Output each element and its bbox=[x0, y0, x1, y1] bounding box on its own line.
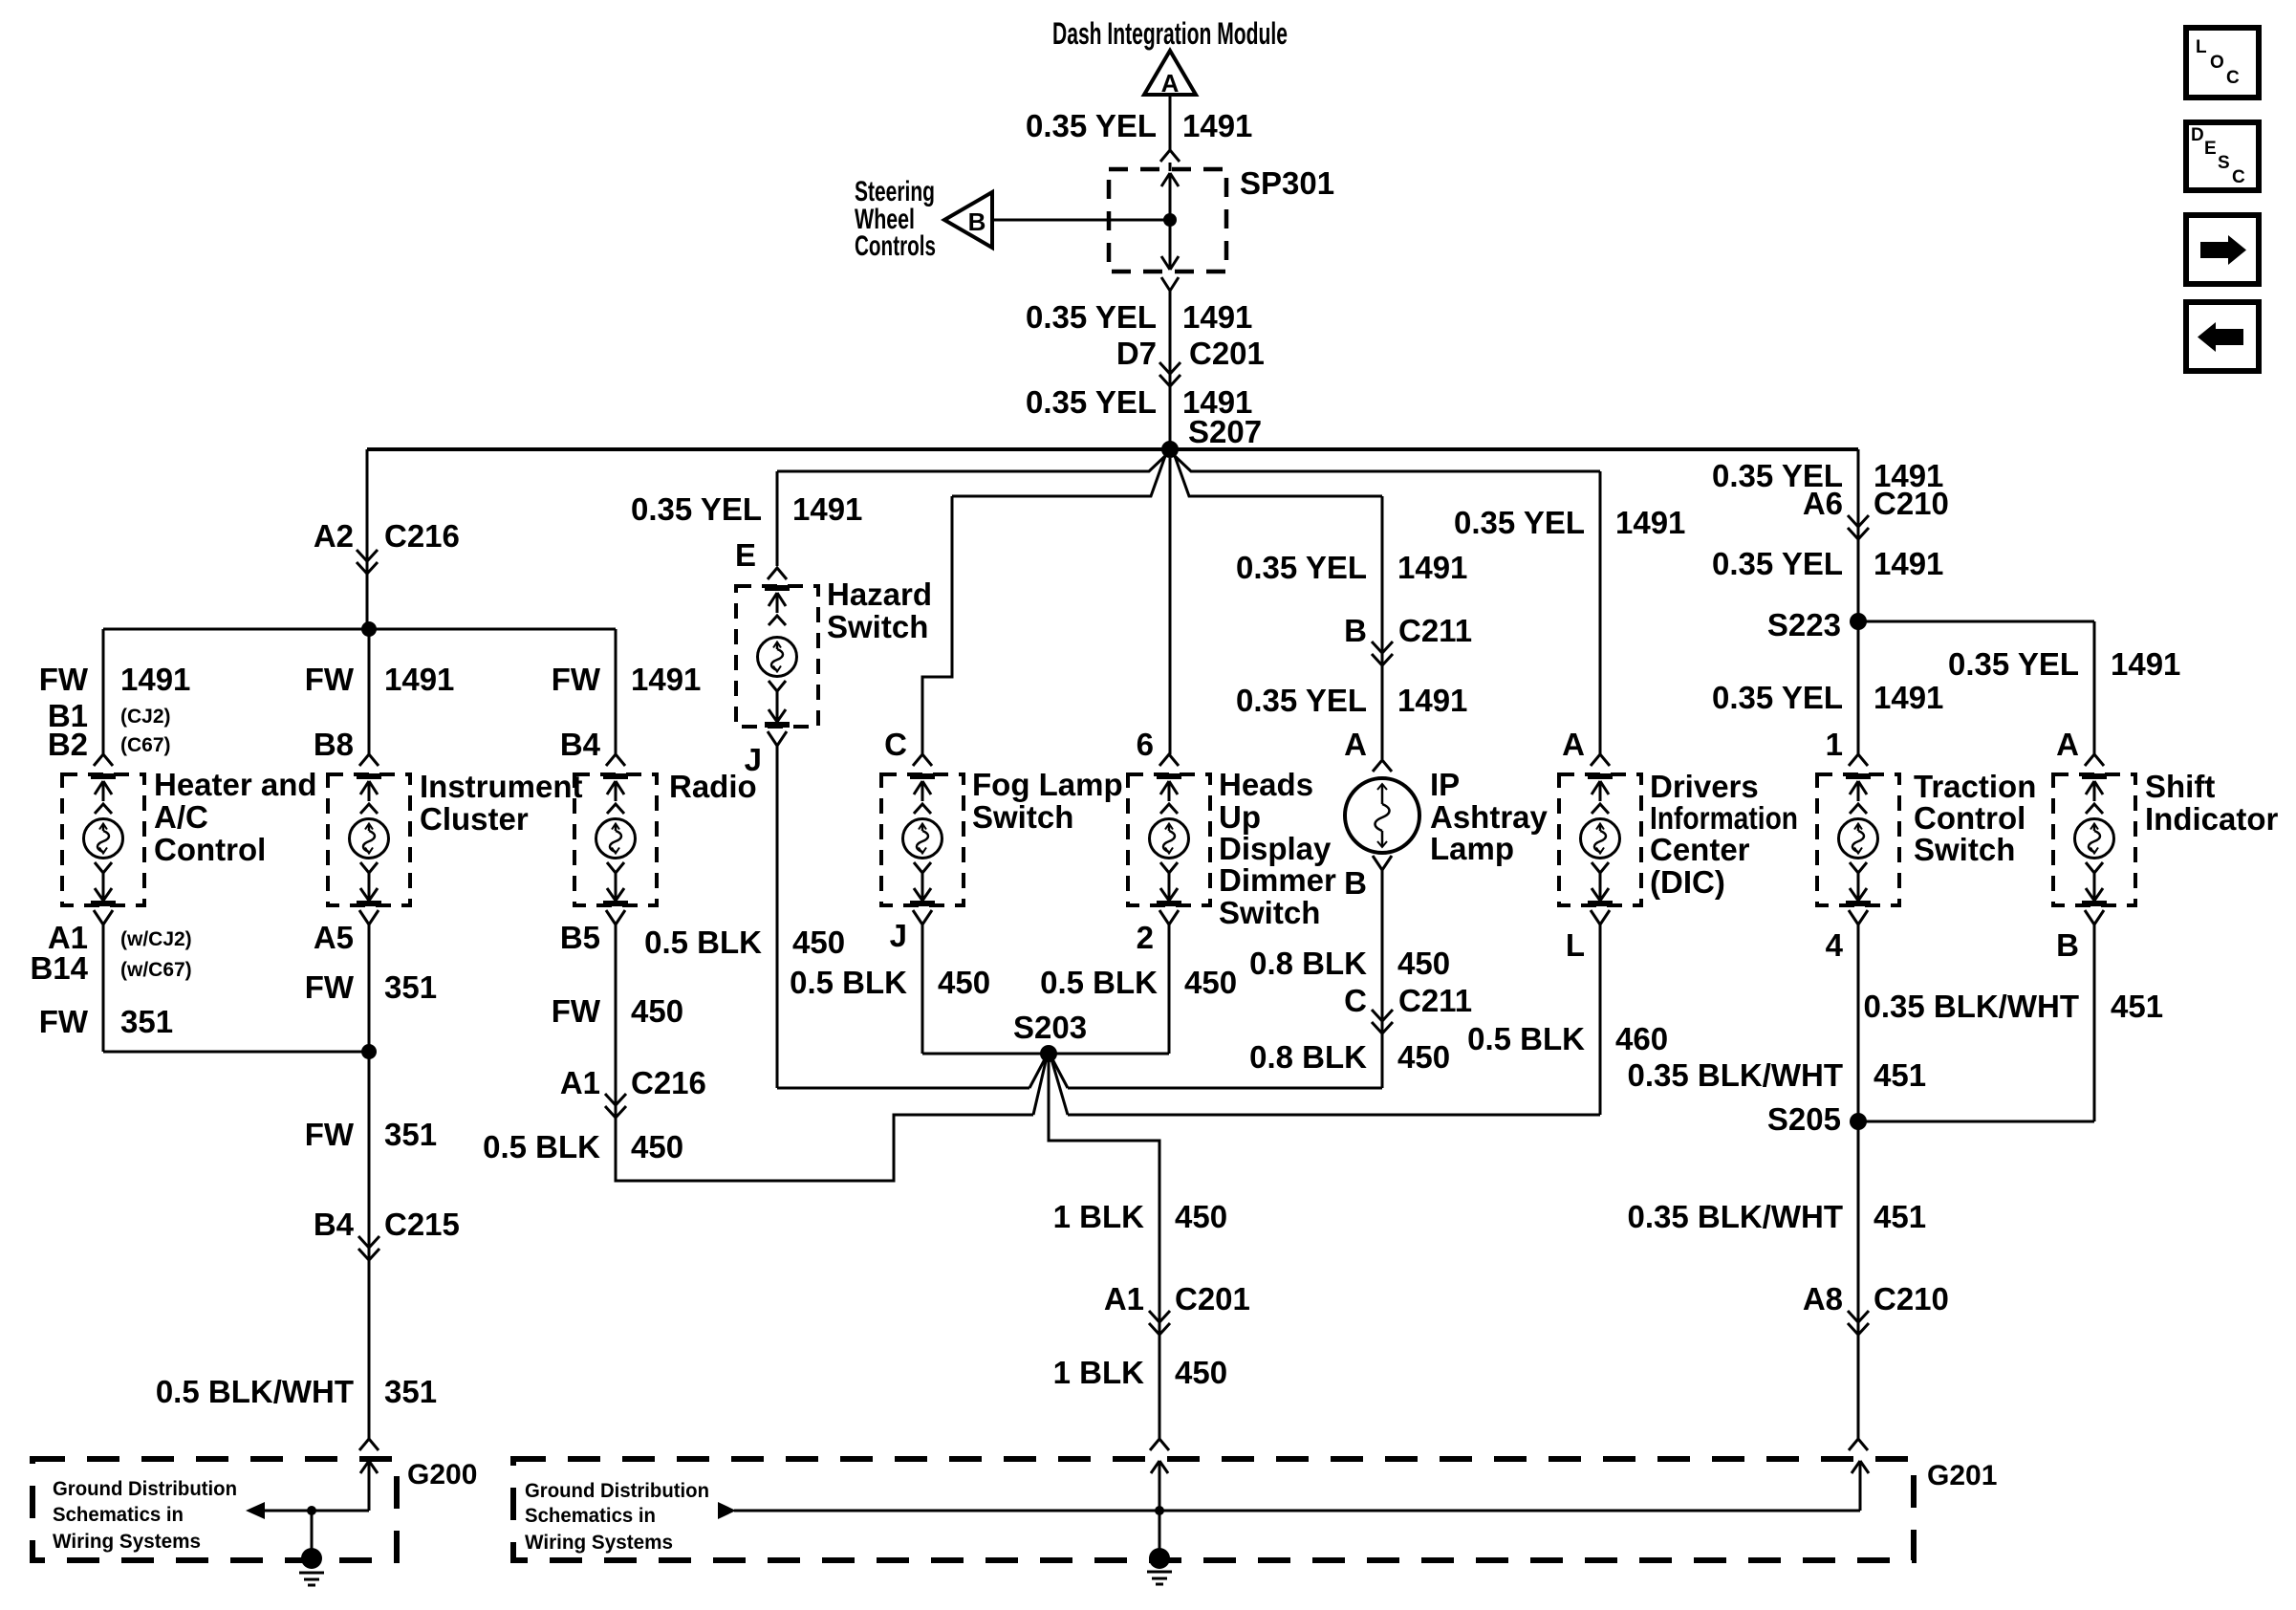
svg-text:C: C bbox=[884, 727, 907, 762]
connector chevron below heater box bbox=[94, 910, 113, 925]
svg-text:Drivers: Drivers bbox=[1650, 769, 1759, 804]
ground G201 bbox=[1149, 1548, 1170, 1569]
svg-text:C216: C216 bbox=[384, 518, 460, 554]
svg-text:A1: A1 bbox=[1104, 1281, 1144, 1316]
connector chevron above DIC box bbox=[1591, 754, 1610, 766]
svg-text:Instrument: Instrument bbox=[420, 769, 583, 804]
svg-text:FW: FW bbox=[552, 662, 601, 697]
svg-text:C215: C215 bbox=[384, 1207, 460, 1242]
svg-text:1491: 1491 bbox=[1397, 550, 1467, 585]
wire S207 branch to Fog Lamp Switch bbox=[952, 456, 1165, 496]
svg-text:Heater and: Heater and bbox=[154, 767, 317, 802]
svg-text:S: S bbox=[2218, 153, 2230, 173]
svg-text:B2: B2 bbox=[48, 727, 88, 762]
svg-text:351: 351 bbox=[384, 969, 437, 1005]
wire junction bus to Heater and Radio drops bbox=[103, 628, 616, 631]
wire inside G200 to left arrow bbox=[265, 1510, 369, 1512]
svg-text:1491: 1491 bbox=[1397, 683, 1467, 718]
svg-text:C211: C211 bbox=[1398, 613, 1472, 648]
wire drop to Heater and A/C Control bbox=[102, 629, 105, 754]
svg-text:C: C bbox=[1344, 983, 1367, 1018]
svg-text:0.35 YEL: 0.35 YEL bbox=[1454, 505, 1585, 540]
svg-text:A: A bbox=[1562, 727, 1585, 762]
connector chevron above hazard box bbox=[768, 568, 787, 579]
svg-text:B8: B8 bbox=[314, 727, 354, 762]
icon button DESC bbox=[2186, 122, 2259, 190]
connector C216 double chevron (radio) bbox=[605, 1094, 626, 1105]
svg-text:A: A bbox=[2056, 727, 2079, 762]
connector chevron below fog lamp box bbox=[913, 910, 932, 925]
connector chevron above SP301 bbox=[1160, 150, 1180, 162]
svg-text:E: E bbox=[735, 537, 756, 573]
icon button right arrow bbox=[2186, 215, 2259, 284]
svg-text:0.35 YEL: 0.35 YEL bbox=[631, 491, 762, 527]
svg-text:Traction: Traction bbox=[1914, 769, 2036, 804]
svg-text:1491: 1491 bbox=[1182, 299, 1252, 335]
svg-text:450: 450 bbox=[631, 993, 683, 1029]
main wire bus from S207 left to C216 drop and right to traction drop bbox=[367, 447, 1858, 451]
connector chevron below SP301 bbox=[1161, 277, 1179, 291]
svg-text:450: 450 bbox=[1397, 1039, 1450, 1075]
connector C201 double chevron (A1) bbox=[1149, 1311, 1170, 1322]
wire bus down to traction control bbox=[1857, 449, 1860, 754]
svg-text:C201: C201 bbox=[1189, 336, 1265, 371]
svg-text:A1: A1 bbox=[560, 1065, 600, 1100]
svg-text:Switch: Switch bbox=[1914, 832, 2015, 867]
svg-text:1491: 1491 bbox=[384, 662, 454, 697]
svg-text:Switch: Switch bbox=[1219, 895, 1320, 930]
svg-text:C: C bbox=[2226, 68, 2240, 88]
arrow up inside SP301 bbox=[1169, 172, 1172, 175]
svg-text:Hazard: Hazard bbox=[827, 577, 932, 612]
svg-text:O: O bbox=[2210, 53, 2224, 73]
svg-text:Fog Lamp: Fog Lamp bbox=[972, 767, 1123, 802]
lamp Fog Lamp Switch bbox=[881, 774, 964, 905]
svg-text:Control: Control bbox=[154, 832, 266, 867]
connector chevron below DIC box bbox=[1591, 910, 1610, 925]
node junction on ground wire 351 bbox=[361, 1044, 377, 1059]
svg-text:0.5 BLK: 0.5 BLK bbox=[483, 1129, 600, 1164]
svg-text:(DIC): (DIC) bbox=[1650, 864, 1725, 900]
svg-text:D7: D7 bbox=[1116, 336, 1157, 371]
wire from bus down to C216 connector bbox=[366, 449, 369, 629]
lamp Traction Control Switch bbox=[1817, 774, 1899, 905]
arrow up inside G201 (right riser) bbox=[1852, 1461, 1860, 1473]
svg-text:S207: S207 bbox=[1188, 414, 1262, 449]
svg-text:(w/C67): (w/C67) bbox=[120, 959, 192, 981]
connector chevron above G201 (left) bbox=[1150, 1439, 1169, 1450]
svg-text:0.5 BLK/WHT: 0.5 BLK/WHT bbox=[156, 1374, 354, 1409]
connector C210 double chevron (A6) bbox=[1848, 515, 1869, 527]
wire into SP301 bbox=[1169, 163, 1172, 171]
wire S207 branch to DIC bbox=[1173, 454, 1600, 471]
svg-text:FW: FW bbox=[552, 993, 601, 1029]
svg-text:Indicator: Indicator bbox=[2145, 801, 2279, 837]
connector C201 double chevron bbox=[1159, 362, 1180, 374]
svg-text:Ashtray: Ashtray bbox=[1430, 799, 1549, 835]
svg-text:Controls: Controls bbox=[855, 230, 936, 262]
lamp Heater and A/C Control bbox=[62, 774, 144, 905]
svg-text:C211: C211 bbox=[1398, 983, 1472, 1018]
svg-text:1: 1 bbox=[1826, 727, 1843, 762]
svg-text:C210: C210 bbox=[1874, 486, 1949, 521]
svg-text:450: 450 bbox=[1397, 946, 1450, 981]
wire 1491 from triangle A to SP301 bbox=[1169, 95, 1172, 151]
svg-text:FW: FW bbox=[305, 662, 355, 697]
svg-text:450: 450 bbox=[792, 925, 845, 960]
wire instrument cluster down to G200 bbox=[368, 925, 371, 1439]
svg-text:(w/CJ2): (w/CJ2) bbox=[120, 928, 192, 950]
svg-text:451: 451 bbox=[2111, 989, 2163, 1024]
svg-text:A8: A8 bbox=[1803, 1281, 1843, 1316]
svg-text:FW: FW bbox=[39, 662, 89, 697]
svg-text:B: B bbox=[1344, 865, 1367, 901]
connector chevron above G200 bbox=[359, 1439, 379, 1450]
node junction inside G200 bbox=[307, 1506, 316, 1515]
connector chevron above heater box bbox=[94, 754, 113, 766]
svg-text:G200: G200 bbox=[407, 1459, 477, 1490]
wire radio to S203 bbox=[616, 925, 1033, 1181]
wire drop to Radio bbox=[615, 629, 617, 754]
svg-text:Up: Up bbox=[1219, 799, 1261, 835]
svg-text:B: B bbox=[2056, 927, 2079, 963]
svg-text:451: 451 bbox=[1874, 1057, 1926, 1093]
svg-text:Ground Distribution: Ground Distribution bbox=[53, 1478, 237, 1500]
svg-text:C210: C210 bbox=[1874, 1281, 1949, 1316]
svg-text:Schematics in: Schematics in bbox=[53, 1504, 184, 1526]
svg-text:1491: 1491 bbox=[2111, 646, 2180, 682]
svg-text:351: 351 bbox=[384, 1374, 437, 1409]
svg-text:A5: A5 bbox=[314, 920, 354, 955]
svg-text:Switch: Switch bbox=[972, 799, 1073, 835]
svg-text:0.5 BLK: 0.5 BLK bbox=[1467, 1021, 1585, 1056]
lamp Drivers Information Center bbox=[1559, 774, 1641, 905]
svg-text:Center: Center bbox=[1650, 832, 1750, 867]
svg-text:0.5 BLK: 0.5 BLK bbox=[1040, 965, 1158, 1000]
svg-text:450: 450 bbox=[1184, 965, 1237, 1000]
wire heater to ground bus bbox=[102, 925, 105, 1052]
svg-text:IP: IP bbox=[1430, 767, 1460, 802]
wire S223 branch down to shift indicator bbox=[2093, 621, 2096, 754]
lamp Instrument Cluster bbox=[328, 774, 410, 905]
svg-text:451: 451 bbox=[1874, 1199, 1926, 1234]
svg-text:1491: 1491 bbox=[1182, 108, 1252, 143]
svg-text:0.35 YEL: 0.35 YEL bbox=[1712, 680, 1843, 715]
wire S203 down to G201 (1 BLK 450) bbox=[1049, 1054, 1159, 1439]
svg-text:2: 2 bbox=[1137, 920, 1154, 955]
svg-text:FW: FW bbox=[39, 1004, 89, 1039]
arrow down inside SP301 to box bottom bbox=[1169, 220, 1172, 270]
connector C215 double chevron bbox=[358, 1236, 379, 1248]
connector C211 double chevron (upper) bbox=[1372, 642, 1393, 653]
svg-text:L: L bbox=[2196, 37, 2207, 57]
connector chevron above fog lamp box bbox=[913, 754, 932, 766]
svg-text:E: E bbox=[2204, 139, 2217, 159]
svg-text:1491: 1491 bbox=[1874, 680, 1943, 715]
lamp IP Ashtray Lamp bbox=[1345, 778, 1419, 853]
svg-text:Information: Information bbox=[1650, 800, 1798, 836]
splice node S205 bbox=[1850, 1113, 1867, 1130]
svg-text:C201: C201 bbox=[1175, 1281, 1250, 1316]
svg-text:1491: 1491 bbox=[792, 491, 862, 527]
svg-text:1491: 1491 bbox=[631, 662, 701, 697]
connector chevron above traction box bbox=[1849, 754, 1868, 766]
wire fog lamp to S203 bbox=[921, 925, 924, 1054]
svg-text:6: 6 bbox=[1137, 727, 1154, 762]
svg-text:A: A bbox=[1161, 69, 1180, 98]
wire 1491 from SP301 to S207 bbox=[1169, 291, 1172, 442]
lamp Hazard Switch bbox=[736, 586, 818, 727]
svg-text:A: A bbox=[1344, 727, 1367, 762]
connector chevron above ashtray lamp bbox=[1373, 760, 1392, 772]
connector triangle B (Steering Wheel Controls) bbox=[944, 192, 992, 248]
svg-text:B: B bbox=[968, 207, 986, 236]
svg-text:0.35 YEL: 0.35 YEL bbox=[1026, 108, 1157, 143]
svg-text:Shift: Shift bbox=[2145, 769, 2215, 804]
node junction inside G201 bbox=[1155, 1506, 1164, 1515]
svg-text:Display: Display bbox=[1219, 831, 1332, 866]
svg-text:0.8 BLK: 0.8 BLK bbox=[1249, 1039, 1367, 1075]
svg-text:D: D bbox=[2191, 125, 2204, 145]
svg-text:1 BLK: 1 BLK bbox=[1053, 1355, 1145, 1390]
svg-text:4: 4 bbox=[1826, 927, 1844, 963]
connector chevron above G201 (right) bbox=[1849, 1439, 1868, 1450]
svg-text:1491: 1491 bbox=[120, 662, 190, 697]
connector chevron below traction box bbox=[1849, 910, 1868, 925]
connector chevron above shift box bbox=[2085, 754, 2104, 766]
connector chevron above instrument cluster box bbox=[359, 754, 379, 766]
svg-text:450: 450 bbox=[631, 1129, 683, 1164]
svg-text:Switch: Switch bbox=[827, 609, 928, 644]
ground distribution box G200 bbox=[32, 1459, 397, 1560]
svg-text:A6: A6 bbox=[1803, 486, 1843, 521]
icon button LOC bbox=[2186, 28, 2259, 98]
svg-text:0.35 YEL: 0.35 YEL bbox=[1026, 299, 1157, 335]
lamp Shift Indicator bbox=[2053, 774, 2135, 905]
svg-text:Cluster: Cluster bbox=[420, 801, 529, 837]
svg-text:460: 460 bbox=[1615, 1021, 1668, 1056]
svg-text:(CJ2): (CJ2) bbox=[120, 706, 171, 728]
svg-text:B4: B4 bbox=[560, 727, 601, 762]
svg-text:B5: B5 bbox=[560, 920, 600, 955]
svg-text:450: 450 bbox=[1175, 1199, 1227, 1234]
wire junction to ground G200 bbox=[311, 1511, 314, 1558]
connector C210 double chevron (A8) bbox=[1848, 1311, 1869, 1322]
splice node S203 bbox=[1040, 1045, 1057, 1062]
svg-text:0.8 BLK: 0.8 BLK bbox=[1249, 946, 1367, 981]
svg-text:0.35 YEL: 0.35 YEL bbox=[1236, 683, 1367, 718]
svg-text:Dimmer: Dimmer bbox=[1219, 862, 1336, 898]
connector C211 double chevron (lower) bbox=[1372, 1010, 1393, 1021]
svg-text:S223: S223 bbox=[1767, 607, 1841, 642]
wire bus inside G201 bbox=[734, 1510, 1860, 1512]
svg-text:J: J bbox=[890, 918, 907, 953]
svg-text:B4: B4 bbox=[314, 1207, 355, 1242]
svg-text:450: 450 bbox=[938, 965, 990, 1000]
lamp Heads Up Display Dimmer Switch bbox=[1128, 774, 1210, 905]
svg-text:L: L bbox=[1566, 927, 1585, 963]
svg-text:0.35 BLK/WHT: 0.35 BLK/WHT bbox=[1627, 1057, 1843, 1093]
svg-text:351: 351 bbox=[384, 1117, 437, 1152]
svg-text:1491: 1491 bbox=[1615, 505, 1685, 540]
svg-text:FW: FW bbox=[305, 1117, 355, 1152]
wire junction to ground G201 bbox=[1159, 1511, 1161, 1558]
svg-text:0.35 BLK/WHT: 0.35 BLK/WHT bbox=[1863, 989, 2079, 1024]
svg-text:0.5 BLK: 0.5 BLK bbox=[644, 925, 762, 960]
wire S223 to shift indicator bbox=[1858, 620, 2094, 623]
icon button left arrow bbox=[2186, 302, 2259, 371]
connector chevron below ashtray lamp bbox=[1373, 856, 1392, 870]
svg-text:A/C: A/C bbox=[154, 799, 208, 835]
svg-text:A2: A2 bbox=[314, 518, 354, 554]
connector C216 double chevron bbox=[357, 550, 378, 561]
svg-text:1 BLK: 1 BLK bbox=[1053, 1199, 1145, 1234]
svg-text:0.35 YEL: 0.35 YEL bbox=[1712, 546, 1843, 581]
wire hazard to S203 bbox=[776, 746, 779, 1088]
ground G200 bbox=[301, 1548, 322, 1569]
svg-text:0.35 YEL: 0.35 YEL bbox=[1026, 384, 1157, 420]
svg-text:Dash Integration Module: Dash Integration Module bbox=[1052, 16, 1288, 51]
svg-text:Schematics in: Schematics in bbox=[525, 1505, 656, 1527]
svg-text:Ground Distribution: Ground Distribution bbox=[525, 1480, 709, 1502]
svg-text:Control: Control bbox=[1914, 800, 2025, 836]
svg-text:Lamp: Lamp bbox=[1430, 831, 1514, 866]
svg-text:C: C bbox=[2232, 167, 2245, 187]
svg-text:S203: S203 bbox=[1013, 1010, 1087, 1045]
splice box SP301 bbox=[1109, 169, 1226, 272]
svg-text:0.5 BLK: 0.5 BLK bbox=[790, 965, 907, 1000]
svg-text:S205: S205 bbox=[1767, 1101, 1841, 1137]
svg-text:1491: 1491 bbox=[1874, 546, 1943, 581]
svg-text:(C67): (C67) bbox=[120, 734, 171, 756]
connector chevron below radio box bbox=[606, 910, 625, 925]
node junction above Instrument Cluster bbox=[361, 621, 377, 637]
wire traction down to G201 bbox=[1857, 925, 1860, 1439]
wire shift indicator to S205 bbox=[2093, 925, 2096, 1121]
connector chevron above radio box bbox=[606, 754, 625, 766]
svg-text:0.35 BLK/WHT: 0.35 BLK/WHT bbox=[1627, 1199, 1843, 1234]
splice node S207 bbox=[1161, 441, 1179, 458]
wire S207 branch to Hazard Switch bbox=[777, 454, 1167, 471]
svg-text:B14: B14 bbox=[30, 950, 88, 986]
svg-text:B: B bbox=[1344, 613, 1367, 648]
svg-text:FW: FW bbox=[305, 969, 355, 1005]
svg-text:Wiring Systems: Wiring Systems bbox=[525, 1532, 673, 1554]
connector chevron below HUD box bbox=[1159, 910, 1179, 925]
svg-text:351: 351 bbox=[120, 1004, 173, 1039]
wire HUD to S203 bbox=[1168, 925, 1171, 1054]
svg-text:G201: G201 bbox=[1927, 1460, 1997, 1491]
svg-text:0.35 YEL: 0.35 YEL bbox=[1236, 550, 1367, 585]
svg-text:J: J bbox=[745, 742, 762, 777]
svg-text:0.35 YEL: 0.35 YEL bbox=[1948, 646, 2079, 682]
svg-text:450: 450 bbox=[1175, 1355, 1227, 1390]
ground distribution box G201 bbox=[513, 1459, 1914, 1560]
wire S207 branch to IP Ashtray Lamp bbox=[1175, 456, 1382, 496]
svg-text:Wiring Systems: Wiring Systems bbox=[53, 1531, 201, 1553]
lamp Radio bbox=[574, 774, 657, 905]
connector chevron above HUD box bbox=[1159, 754, 1179, 766]
arrow up inside G201 (left riser) bbox=[1151, 1461, 1159, 1473]
connector triangle A (Dash Integration Module) bbox=[1144, 51, 1196, 95]
wire ashtray to S203 bbox=[1381, 870, 1384, 1088]
node junction inside SP301 bbox=[1163, 213, 1177, 227]
wire drop to Instrument Cluster bbox=[368, 629, 371, 754]
connector chevron below hazard box bbox=[768, 731, 787, 746]
connector chevron below shift box bbox=[2085, 910, 2104, 925]
wire S207 branch down to Heads Up Display Dimmer Switch bbox=[1169, 458, 1172, 754]
wire from SP301 junction to Steering Wheel Controls triangle bbox=[992, 219, 1170, 222]
svg-text:Heads: Heads bbox=[1219, 767, 1313, 802]
connector chevron below instrument cluster box bbox=[359, 910, 379, 925]
wire DIC to S203 bbox=[1599, 925, 1602, 1115]
arrow up inside G200 bbox=[360, 1461, 369, 1473]
splice node S223 bbox=[1850, 613, 1867, 630]
svg-text:SP301: SP301 bbox=[1240, 165, 1334, 201]
svg-text:C216: C216 bbox=[631, 1065, 706, 1100]
